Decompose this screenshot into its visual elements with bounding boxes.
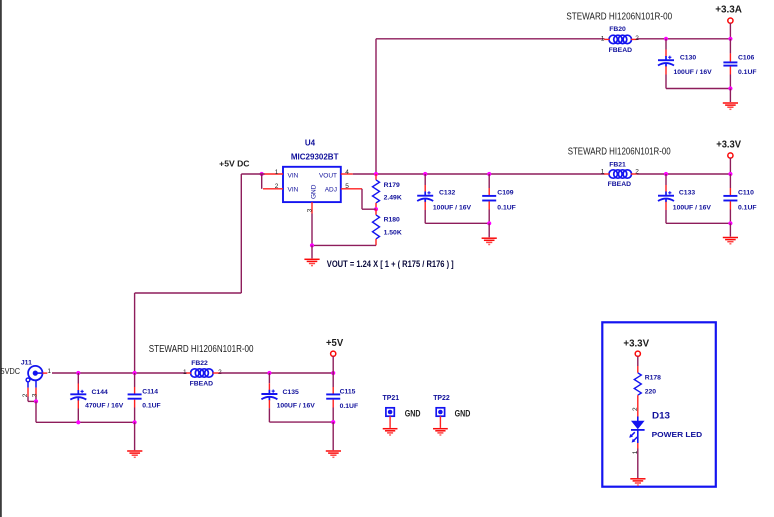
wire bottom rail C130-C106	[666, 88, 730, 90]
pin number J11-3	[32, 393, 39, 397]
led D13 cathode lead	[637, 430, 639, 443]
pin stub FB22 pin1	[186, 372, 191, 374]
pin number FB21-2	[635, 168, 639, 175]
wire to ground (C110)	[729, 223, 731, 236]
svg-text:+3.3V: +3.3V	[716, 139, 741, 150]
svg-text:VOUT = 1.24 X [ 1 + ( R175 / R: VOUT = 1.24 X [ 1 + ( R175 / R176 ) ]	[327, 259, 454, 269]
wire ground rail J11 row	[36, 421, 135, 423]
svg-text:FB22: FB22	[191, 360, 208, 367]
svg-text:5: 5	[345, 183, 349, 190]
wire C115 bottom stub	[332, 400, 334, 423]
pin number U4-2	[275, 183, 279, 190]
svg-text:100UF / 16V: 100UF / 16V	[277, 403, 316, 410]
label C109	[497, 189, 513, 196]
text STEWARD HI1206N101R-00 (mid)	[568, 146, 671, 157]
ferrite bead FB21	[609, 170, 632, 178]
svg-text:3: 3	[306, 208, 313, 212]
svg-text:STEWARD HI1206N101R-00: STEWARD HI1206N101R-00	[566, 12, 672, 23]
led D13 triangle	[631, 421, 645, 429]
text +3.3V (LED box)	[623, 339, 649, 350]
wire FB20 pin2 to +3.3A node	[637, 38, 731, 40]
wire top net to FB20 pin 1	[376, 38, 605, 40]
resistor R180	[373, 215, 380, 239]
ground below C114	[127, 451, 142, 457]
ground below C115	[326, 451, 341, 457]
junction C114 bottom	[133, 420, 137, 424]
ground below C109	[482, 238, 497, 244]
svg-text:220: 220	[645, 389, 657, 396]
text GND (TP21)	[405, 408, 421, 418]
pin stub R180 bottom	[375, 239, 377, 246]
value C106 0.1UF	[738, 69, 757, 76]
wire rail C132-C109	[425, 222, 489, 224]
wire ADJ vertical	[362, 189, 376, 209]
label J11	[21, 360, 32, 367]
junction gnd node C110	[728, 221, 732, 225]
value C132 100UF / 16V	[433, 205, 472, 212]
test point TP21	[386, 408, 394, 416]
pin name ADJ (pin5)	[325, 187, 337, 194]
pin stub FB21 pin1	[604, 173, 609, 175]
svg-text:C132: C132	[439, 189, 455, 196]
ground below TP22	[433, 429, 448, 435]
svg-text:FB21: FB21	[609, 162, 626, 169]
label C132	[439, 189, 455, 196]
junction GND pin3	[310, 243, 314, 247]
pin number FB22-1	[183, 369, 187, 376]
svg-text:C109: C109	[497, 189, 513, 196]
label C133	[679, 189, 695, 196]
pin number J11-2	[22, 393, 29, 397]
svg-text:0.1UF: 0.1UF	[497, 205, 516, 212]
wire R180 bottom to GND pin3	[312, 244, 376, 246]
svg-text:0.1UF: 0.1UF	[738, 69, 757, 76]
ground below C110	[723, 238, 738, 244]
value C114 0.1UF	[142, 403, 161, 410]
svg-text:C130: C130	[680, 55, 696, 62]
svg-text:+5V: +5V	[326, 338, 344, 349]
connector J11 body	[26, 366, 42, 388]
svg-text:+3.3V: +3.3V	[623, 339, 649, 350]
wire TP22 to ground	[439, 416, 441, 428]
svg-text:C133: C133	[679, 189, 695, 196]
pin number U4-4	[345, 169, 349, 176]
pin name GND (pin3)	[311, 184, 318, 199]
svg-text:2.49K: 2.49K	[384, 195, 402, 202]
svg-text:J11: J11	[21, 360, 32, 367]
resistor R179	[373, 180, 380, 203]
wire TP21 to ground	[389, 416, 391, 428]
ground below U4 pin3	[304, 259, 319, 265]
svg-text:U4: U4	[305, 139, 316, 148]
junction C135 top	[267, 371, 271, 375]
label TP22	[433, 393, 450, 402]
svg-text:1: 1	[275, 169, 279, 176]
wire pin2 jog vertical	[261, 174, 263, 189]
svg-text:100UF / 16V: 100UF / 16V	[673, 205, 712, 212]
label C114	[142, 389, 158, 396]
pin stub FB20 pin1	[604, 38, 609, 40]
svg-text:R178: R178	[645, 374, 661, 381]
svg-text:C114: C114	[142, 389, 158, 396]
junction C144 top	[76, 371, 80, 375]
value C133 100UF / 16V	[673, 205, 712, 212]
svg-text:R179: R179	[384, 182, 400, 189]
svg-text:2: 2	[275, 183, 279, 190]
junction C132 top	[423, 172, 427, 176]
capacitor C110	[723, 196, 737, 201]
power symbol +5V	[331, 351, 336, 373]
junction R179 top	[374, 172, 378, 176]
svg-text:1: 1	[601, 168, 605, 175]
svg-text:D13: D13	[652, 410, 670, 421]
pin stub R179 top	[375, 174, 377, 180]
wire C106 top stub	[729, 39, 731, 62]
svg-text:0.1UF: 0.1UF	[340, 403, 359, 410]
svg-text:FB20: FB20	[609, 26, 626, 33]
pin number FB21-1	[601, 168, 605, 175]
svg-text:GND: GND	[311, 184, 318, 199]
pin number J11-1	[47, 368, 51, 375]
wire C133 bottom drop	[665, 202, 667, 224]
wire junction to U4 pin1 corner	[241, 173, 264, 175]
wire C132 top drop	[424, 174, 426, 192]
text STEWARD HI1206N101R-00 (top)	[566, 12, 672, 23]
svg-text:VOUT: VOUT	[319, 172, 337, 179]
value POWER LED	[652, 430, 703, 439]
pin name VIN (pin1)	[288, 172, 299, 179]
text STEWARD HI1206N101R-00 (bottom)	[149, 344, 254, 355]
test point TP22	[436, 408, 444, 416]
svg-text:1: 1	[632, 450, 639, 454]
svg-text:ADJ: ADJ	[325, 187, 337, 194]
value C110 0.1UF	[738, 205, 757, 212]
led D13 emission arrows	[629, 432, 637, 442]
svg-text:FBEAD: FBEAD	[608, 181, 632, 188]
label R179	[384, 182, 400, 189]
value C130 100UF / 16V	[674, 69, 713, 76]
pin stub U4 pin5	[341, 188, 362, 190]
junction +5VDC at pin1	[260, 172, 264, 176]
label D13	[652, 410, 670, 421]
svg-text:R180: R180	[384, 217, 400, 224]
frame D13 box	[602, 322, 716, 486]
wire FB21 pin2 to +3.3V node	[637, 173, 731, 175]
svg-text:1.50K: 1.50K	[384, 229, 402, 236]
junction C109 top	[487, 172, 491, 176]
text VOUT formula	[327, 259, 454, 269]
junction C130 top	[664, 37, 668, 41]
svg-text:C135: C135	[283, 389, 299, 396]
capacitor C133	[658, 191, 674, 202]
junction C144 bottom	[76, 420, 80, 424]
capacitor C135	[261, 390, 277, 401]
wire +5VDC rail left	[52, 372, 187, 374]
svg-text:470UF / 16V: 470UF / 16V	[85, 403, 124, 410]
svg-text:C106: C106	[738, 55, 754, 62]
wire C109 bottom stub	[488, 201, 490, 223]
svg-text:TP21: TP21	[383, 393, 400, 402]
ferrite bead FB22	[191, 369, 213, 377]
wire C135 bottom drop	[268, 400, 270, 422]
text +5V	[326, 338, 344, 349]
svg-text:100UF / 16V: 100UF / 16V	[674, 69, 713, 76]
wire +5VDC riser	[135, 174, 242, 373]
svg-text:100UF / 16V: 100UF / 16V	[433, 205, 472, 212]
pin stub FB22 pin2	[213, 372, 219, 374]
svg-text:+5V DC: +5V DC	[219, 158, 249, 168]
value C109 0.1UF	[497, 205, 516, 212]
svg-text:+3.3A: +3.3A	[715, 4, 742, 15]
label C115	[340, 389, 356, 396]
svg-text:STEWARD HI1206N101R-00: STEWARD HI1206N101R-00	[149, 344, 254, 355]
label C130	[680, 55, 696, 62]
label R180	[384, 217, 400, 224]
wire FB22 pin2 to +5V node	[219, 372, 333, 374]
led D13 anode lead	[637, 417, 639, 422]
junction C133 top	[664, 172, 668, 176]
text 5VDC	[1, 366, 21, 376]
wire C115 node to ground	[332, 422, 334, 450]
wire C144 top drop	[77, 373, 79, 391]
capacitor C106	[723, 62, 737, 65]
power symbol +3.3V	[728, 153, 733, 174]
wire C110 bottom stub	[729, 201, 731, 223]
wire pin3 down	[311, 214, 313, 246]
pin number D13-2	[632, 407, 639, 411]
pin stub U4 pin4	[341, 173, 353, 175]
text +5V DC	[219, 158, 249, 168]
wire to ground (top-right)	[729, 89, 731, 103]
svg-text:2: 2	[632, 407, 639, 411]
led D13 cathode bar	[631, 429, 645, 431]
label R178	[645, 374, 661, 381]
pin stub R179 bottom	[375, 203, 377, 209]
svg-text:3: 3	[32, 393, 39, 397]
pin stub U4 pin2	[263, 188, 283, 190]
svg-text:MIC29302BT: MIC29302BT	[291, 153, 339, 162]
capacitor C130	[658, 56, 674, 67]
junction +3.3A node	[728, 37, 732, 41]
wire J11 to ground rail	[35, 401, 37, 422]
value FBEAD (FB20)	[609, 47, 633, 54]
junction J11 gnd join	[34, 399, 38, 403]
label FB22	[191, 360, 208, 367]
wire C144 bottom drop	[77, 400, 79, 422]
wire C109 top stub	[488, 174, 490, 195]
pin stub FB21 pin2	[631, 173, 637, 175]
svg-text:0.1UF: 0.1UF	[738, 205, 757, 212]
pin stub U4 pin1	[264, 173, 283, 175]
label C106	[738, 55, 754, 62]
svg-text:STEWARD HI1206N101R-00: STEWARD HI1206N101R-00	[568, 146, 671, 157]
capacitor C109	[482, 196, 496, 201]
pin number U4-3	[306, 208, 313, 212]
wire C106 bottom stub	[729, 67, 731, 89]
wire C115 top stub	[332, 373, 334, 394]
svg-text:1: 1	[601, 36, 605, 43]
pin stub J11 pin3	[35, 388, 37, 397]
wire C114 bottom stub	[134, 400, 136, 423]
ferrite bead FB20	[609, 35, 632, 43]
label U4	[305, 139, 316, 148]
wire C135 top drop	[268, 373, 270, 390]
wire C110 top stub	[729, 174, 731, 195]
svg-text:1: 1	[183, 369, 187, 376]
pin number D13-1	[632, 450, 639, 454]
value C115 0.1UF	[340, 403, 359, 410]
pin stub R180 top	[375, 209, 377, 215]
svg-text:VIN: VIN	[288, 187, 299, 194]
capacitor C114	[128, 394, 142, 398]
pin stub J11 pin1	[43, 372, 48, 374]
svg-text:1: 1	[47, 368, 51, 375]
svg-text:VIN: VIN	[288, 172, 299, 179]
wire LED cathode down	[637, 443, 639, 478]
junction gnd node C109	[487, 221, 491, 225]
svg-text:FBEAD: FBEAD	[609, 47, 633, 54]
wire to ground (C109)	[488, 223, 490, 237]
text +3.3V	[716, 139, 741, 150]
op-amp U4 body	[283, 167, 341, 202]
label FB20	[609, 26, 626, 33]
value FBEAD (FB22)	[190, 381, 214, 388]
pin number FB20-2	[635, 35, 639, 42]
text +3.3A	[715, 4, 742, 15]
svg-text:GND: GND	[455, 408, 471, 418]
resistor R178	[634, 373, 641, 395]
svg-text:GND: GND	[405, 408, 421, 418]
ground below D13	[630, 479, 645, 485]
sheet left border	[0, 0, 2, 517]
capacitor C115	[326, 394, 340, 398]
wire bottom rail C133-C110	[666, 222, 730, 224]
junction gnd node C115	[331, 420, 335, 424]
svg-text:5VDC: 5VDC	[1, 366, 21, 376]
ground below C106	[723, 103, 738, 109]
svg-text:4: 4	[345, 169, 349, 176]
pin number U4-1	[275, 169, 279, 176]
value R178 220	[645, 389, 657, 396]
power symbol +3.3A	[728, 18, 733, 39]
pin stub R178 bottom / LED anode	[637, 395, 639, 416]
label C144	[92, 389, 108, 396]
value R179 2.49K	[384, 195, 402, 202]
svg-text:C115: C115	[340, 389, 356, 396]
label C135	[283, 389, 299, 396]
label C110	[738, 189, 754, 196]
wire pin3 junction to ground	[311, 245, 313, 258]
value FBEAD (FB21)	[608, 181, 632, 188]
capacitor C132	[417, 191, 433, 202]
svg-text:0.1UF: 0.1UF	[142, 403, 161, 410]
value C144 470UF / 16V	[85, 403, 124, 410]
wire rail C135-C115	[269, 421, 333, 423]
svg-text:FBEAD: FBEAD	[190, 381, 214, 388]
svg-text:C144: C144	[92, 389, 108, 396]
ground below TP21	[383, 429, 398, 435]
label FB21	[609, 162, 626, 169]
wire C130 top drop	[665, 39, 667, 57]
wire VOUT net vertical riser	[375, 39, 377, 174]
wire J11 pin2 to pin3 join	[28, 397, 36, 402]
junction riser/C114 top	[133, 371, 137, 375]
power symbol +3.3V (LED box)	[635, 351, 640, 373]
pin stub U4 pin3	[311, 202, 313, 213]
junction +3.3V node	[728, 172, 732, 176]
wire C114 top stub	[134, 373, 136, 394]
pin name VOUT (pin4)	[319, 172, 337, 179]
wire C132 bottom drop	[424, 202, 426, 224]
text GND (TP22)	[455, 408, 471, 418]
pin number U4-5	[345, 183, 349, 190]
value R180 1.50K	[384, 229, 402, 236]
junction gnd node top-right	[728, 86, 732, 90]
label TP21	[383, 393, 400, 402]
pin number FB20-1	[601, 36, 605, 43]
junction +5V node	[331, 371, 335, 375]
pin stub J11 pin2	[27, 388, 29, 397]
svg-text:POWER LED: POWER LED	[652, 430, 703, 439]
junction R179/R180	[374, 207, 378, 211]
wire VOUT net horizontal	[353, 173, 605, 175]
wire C114 node to ground	[134, 422, 136, 450]
value MIC29302BT	[291, 153, 339, 162]
wire C133 top drop	[665, 174, 667, 192]
svg-text:C110: C110	[738, 189, 754, 196]
wire C130 bottom drop	[665, 66, 667, 88]
capacitor C144	[70, 390, 86, 401]
value C135 100UF / 16V	[277, 403, 316, 410]
pin number FB22-2	[218, 369, 222, 376]
svg-text:TP22: TP22	[433, 393, 450, 402]
pin stub FB20 pin2	[631, 38, 637, 40]
pin name VIN (pin2)	[288, 187, 299, 194]
